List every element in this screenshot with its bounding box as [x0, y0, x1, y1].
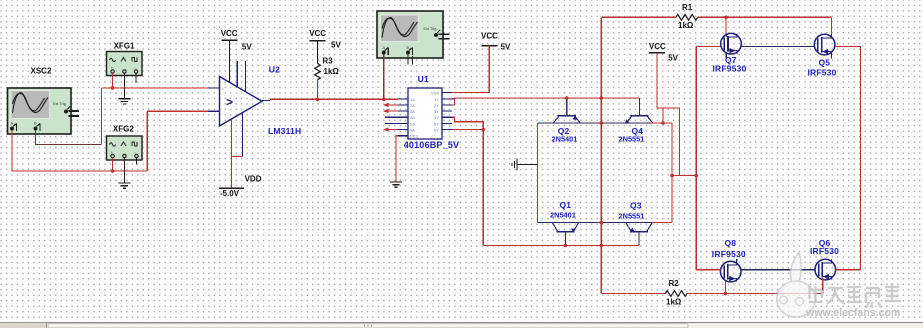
svg-text:VCC: VCC [649, 42, 666, 51]
svg-text:2N5551: 2N5551 [619, 211, 645, 220]
wire U1.3A stub arrow [383, 109, 398, 113]
junction spine at lower base net [600, 244, 604, 248]
svg-text:R1: R1 [682, 3, 693, 12]
junction R3/output [316, 98, 320, 102]
transistor Q3 2N5551 [626, 223, 652, 232]
svg-text:U2: U2 [269, 64, 280, 74]
resistor R3 [315, 63, 321, 79]
svg-text:2N5401: 2N5401 [552, 134, 578, 143]
junction XFG1.plus [111, 86, 115, 90]
svg-text:www.elecfans.com: www.elecfans.com [805, 307, 900, 319]
junction spine at top rail [600, 121, 604, 125]
wire Q4 base up [639, 98, 641, 116]
svg-text:6Y: 6Y [434, 128, 439, 133]
svg-text:5V: 5V [331, 40, 341, 49]
svg-text:5V: 5V [242, 42, 252, 51]
power VCC (bridge) [649, 42, 679, 63]
svg-text:1kΩ: 1kΩ [666, 297, 682, 306]
svg-text:R2: R2 [669, 279, 680, 288]
function generator XFG1 [107, 52, 143, 76]
ground below XFG2 [118, 183, 130, 188]
svg-text:>: > [226, 95, 233, 109]
wire gate feed jog [671, 175, 696, 177]
wire Q2 base up [566, 98, 568, 116]
wire U1.VDD to VCC [452, 46, 489, 93]
svg-text:-5.0V: -5.0V [220, 189, 240, 198]
junction gate feed [694, 174, 698, 178]
junction VCC tap [661, 121, 665, 125]
junction Q8 source [724, 292, 728, 296]
MOSFET Q6 IRF530 [815, 259, 836, 280]
junction XSC1.A/output [382, 98, 386, 102]
svg-text:XSC2: XSC2 [31, 67, 52, 76]
svg-text:VCC: VCC [221, 29, 238, 38]
junction Q1 base [564, 244, 568, 248]
svg-text:40106BP_5V: 40106BP_5V [404, 140, 460, 150]
wire ground tap [517, 163, 538, 165]
svg-text:2N5551: 2N5551 [619, 135, 645, 144]
svg-text:1kΩ: 1kΩ [678, 21, 694, 30]
svg-text:2Y: 2Y [434, 103, 439, 108]
wire bridge top rail [538, 122, 652, 124]
svg-text:Q8: Q8 [725, 238, 737, 248]
wire U1.VSS to ground [396, 136, 398, 182]
svg-text:Q5: Q5 [819, 58, 831, 68]
MOSFET Q5 IRF530 [814, 34, 835, 55]
power VCC (R3) [309, 29, 341, 49]
wire VCC drop to top rail [657, 53, 680, 176]
IC U1 40106BP_5V [385, 88, 452, 139]
wire right of Q6 to edge [836, 269, 861, 271]
svg-text:5Y: 5Y [434, 121, 439, 126]
svg-text:1A: 1A [410, 97, 415, 102]
wire U2 Vminus down to VDD [231, 120, 233, 189]
wire Q6 source down to R2 net [822, 278, 824, 294]
power VDD -5.0V [219, 174, 262, 198]
wire XFG1.minus stub [135, 73, 137, 83]
wire U1.4Y down to lower base net [452, 117, 483, 245]
svg-text:LM311H: LM311H [268, 126, 301, 136]
wire gate link Q7-Q5 [741, 46, 814, 48]
svg-text:2A: 2A [410, 103, 415, 108]
transistor Q4 2N5551 [625, 116, 653, 124]
wire gate line left of Q8 [696, 269, 720, 271]
junction right edge at jog [670, 174, 674, 178]
wire spine vertical [600, 17, 602, 293]
ground below XFG1 [118, 99, 130, 104]
junction 6Y tie [482, 128, 486, 132]
wire R1 to Q7 drain [725, 17, 727, 34]
svg-text:Q1: Q1 [560, 200, 572, 210]
wire right of Q5 down right edge [835, 47, 861, 270]
svg-text:Ext Trig: Ext Trig [53, 102, 66, 106]
svg-text:VCC: VCC [309, 29, 326, 38]
ground (bridge, rotated) [512, 159, 517, 171]
wire bridge right vertical [671, 123, 673, 223]
wire VCC to U2 power pin [229, 40, 231, 83]
svg-text:XFG1: XFG1 [114, 42, 135, 51]
wire XSC2.B to node + (horizontal dark) [36, 131, 102, 145]
svg-text:3A: 3A [410, 109, 415, 114]
transistor Q2 2N5401 [553, 116, 580, 123]
wire Q7 source stub [725, 53, 727, 58]
svg-text:XFG2: XFG2 [113, 125, 134, 134]
svg-text:2N5401: 2N5401 [550, 211, 576, 220]
svg-text:VDD: VDD [245, 174, 262, 183]
wire bridge left vertical [537, 123, 539, 223]
svg-text:Ext Trig: Ext Trig [424, 27, 437, 31]
junction Q7 drain [724, 15, 728, 19]
svg-text:3Y: 3Y [434, 109, 439, 114]
wire XSC1.A down to output net [383, 55, 385, 100]
resistor R1 [601, 14, 831, 20]
power VCC (comparator) [221, 29, 253, 51]
wire gate line left of Q7 [696, 46, 721, 48]
wire U2 balance jog [232, 155, 243, 157]
wire gate link Q8-Q6 [741, 269, 815, 271]
svg-text:U1: U1 [418, 74, 429, 84]
wire XFG1.plus stub [112, 73, 114, 88]
svg-text:IRF530: IRF530 [810, 246, 839, 256]
svg-text:5V: 5V [668, 54, 678, 63]
wire XFG2.minus stub [136, 158, 138, 165]
svg-text:1kΩ: 1kΩ [324, 67, 340, 76]
wire R1 end down to Q5 drain [831, 17, 833, 35]
transistor Q1 2N5401 [552, 223, 578, 233]
svg-text:IRF9530: IRF9530 [713, 64, 747, 74]
wire XFG2.plus stub [112, 158, 114, 171]
wire U1.1Y/2Y tie [452, 98, 455, 105]
wire lower base net horizontal [483, 244, 639, 246]
wire U1.6Y tie [452, 129, 483, 131]
wire node minus horizontal [147, 110, 208, 112]
svg-text:5V: 5V [501, 43, 511, 52]
svg-text:+: + [222, 87, 225, 92]
wire R3 bottom lead [317, 80, 319, 100]
wire XSC2.A down and right [12, 131, 147, 172]
watermark brand glyphs [809, 283, 901, 308]
svg-text:6A: 6A [410, 128, 415, 133]
svg-text:4Y: 4Y [434, 115, 439, 120]
svg-text:-: - [222, 111, 224, 116]
op-amp U2 LM311H [208, 61, 270, 156]
wire node plus horizontal [102, 87, 209, 89]
wire Q8 source down to R2 net [724, 281, 726, 293]
wire XFG1.common down [123, 73, 125, 99]
wire VCC tap to rail [662, 108, 664, 123]
junction XFG2.plus [111, 169, 115, 173]
power VCC (U1) [481, 32, 511, 52]
wire bridge bottom rail [538, 222, 653, 224]
svg-text:IRF530: IRF530 [808, 67, 837, 77]
svg-text:5A: 5A [410, 121, 415, 126]
svg-text:VCC: VCC [481, 32, 498, 41]
wire 1Y to Q2/Q4 base net [452, 97, 640, 100]
wire U1.2A stub arrow [383, 103, 398, 107]
resistor R2 [601, 291, 822, 297]
ground below U1 [390, 182, 402, 187]
oscilloscope XSC2 [8, 88, 80, 134]
watermark logo elecfans [777, 253, 816, 317]
wire Q5 source stub [831, 55, 833, 59]
junction Q2 base [565, 96, 569, 100]
wire XSC2.A riser to comparator minus [146, 111, 148, 171]
junction spine at Q2 base net [600, 96, 604, 100]
svg-text:VDD: VDD [431, 91, 440, 96]
wire XSC2.B riser [101, 88, 103, 145]
wire U1.6A stub arrow [383, 127, 398, 131]
wire Q1 base down [564, 232, 566, 246]
wire XFG2.common down [123, 158, 125, 183]
svg-text:4A: 4A [410, 115, 415, 120]
MOSFET Q7 IRF9530 [721, 33, 742, 54]
svg-text:1Y: 1Y [434, 97, 439, 102]
svg-text:Q3: Q3 [630, 201, 642, 211]
wire VCC to R3 [317, 41, 319, 64]
svg-text:IRF9530: IRF9530 [712, 249, 746, 259]
oscilloscope XSC1 (top) [377, 11, 450, 58]
wire Q3 base down [638, 232, 640, 246]
MOSFET Q8 IRF9530 [720, 259, 741, 282]
wire gate feed column [695, 47, 697, 270]
svg-text:VSS: VSS [410, 134, 418, 139]
scrollbar strip [0, 322, 923, 328]
junction spine at bottom rail [600, 221, 604, 225]
wire XSC1.B stubs [407, 55, 409, 65]
svg-text:R3: R3 [322, 56, 333, 65]
wire U2 output to U1.1A [270, 98, 398, 100]
function generator XFG2 [107, 136, 143, 160]
